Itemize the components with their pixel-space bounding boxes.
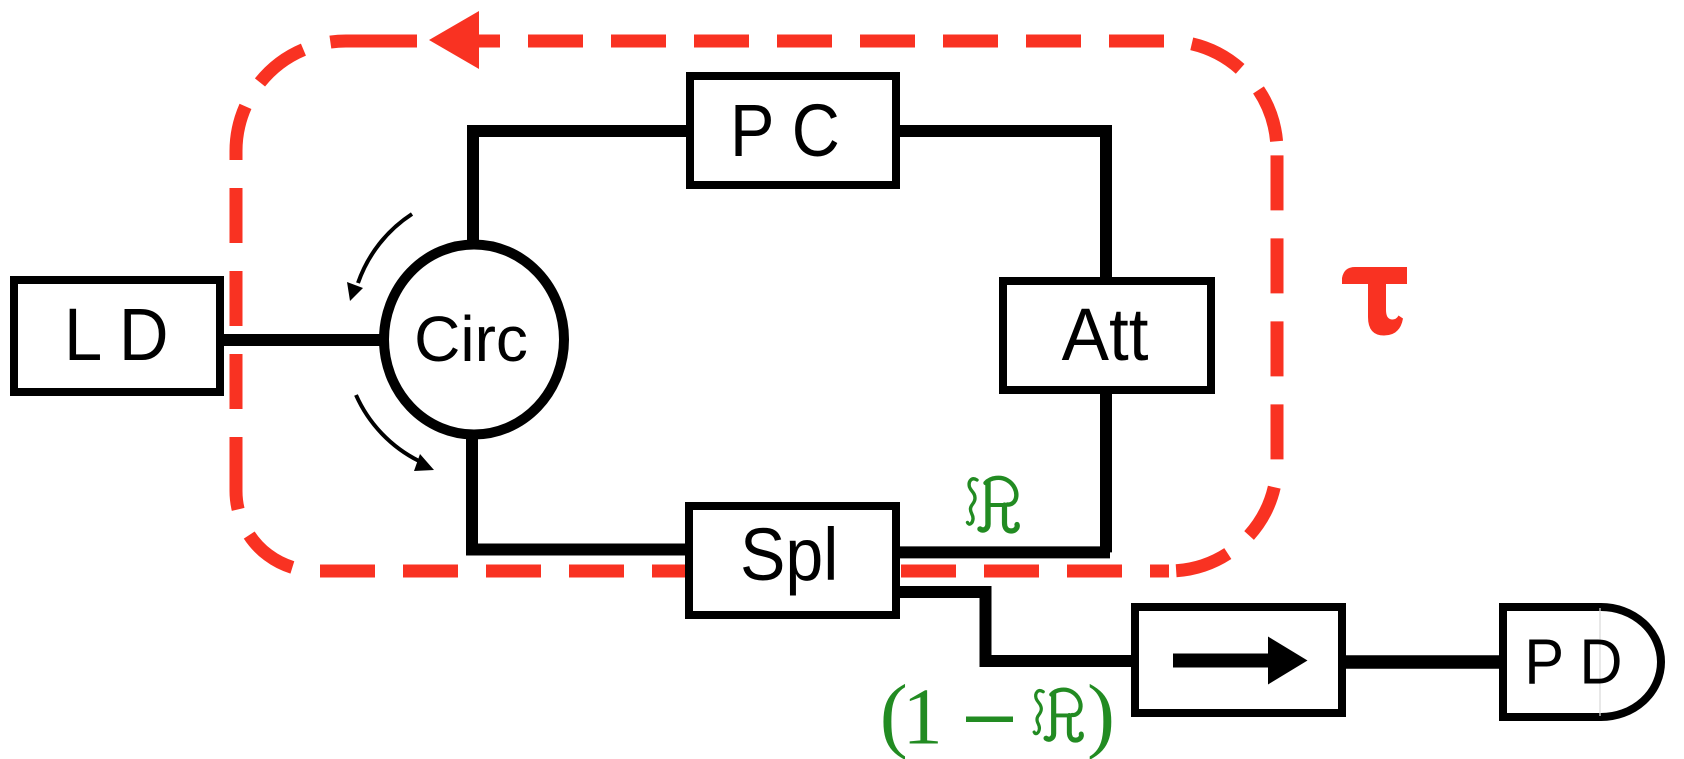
svg-text:P D: P D: [1524, 626, 1622, 697]
svg-text:Att: Att: [1062, 294, 1149, 377]
svg-text:): ): [1087, 668, 1115, 759]
svg-text:Circ: Circ: [414, 303, 528, 375]
svg-text:Spl: Spl: [740, 514, 838, 596]
svg-text:P C: P C: [730, 89, 840, 172]
svg-text:1: 1: [903, 674, 943, 759]
svg-text:L D: L D: [64, 294, 169, 377]
